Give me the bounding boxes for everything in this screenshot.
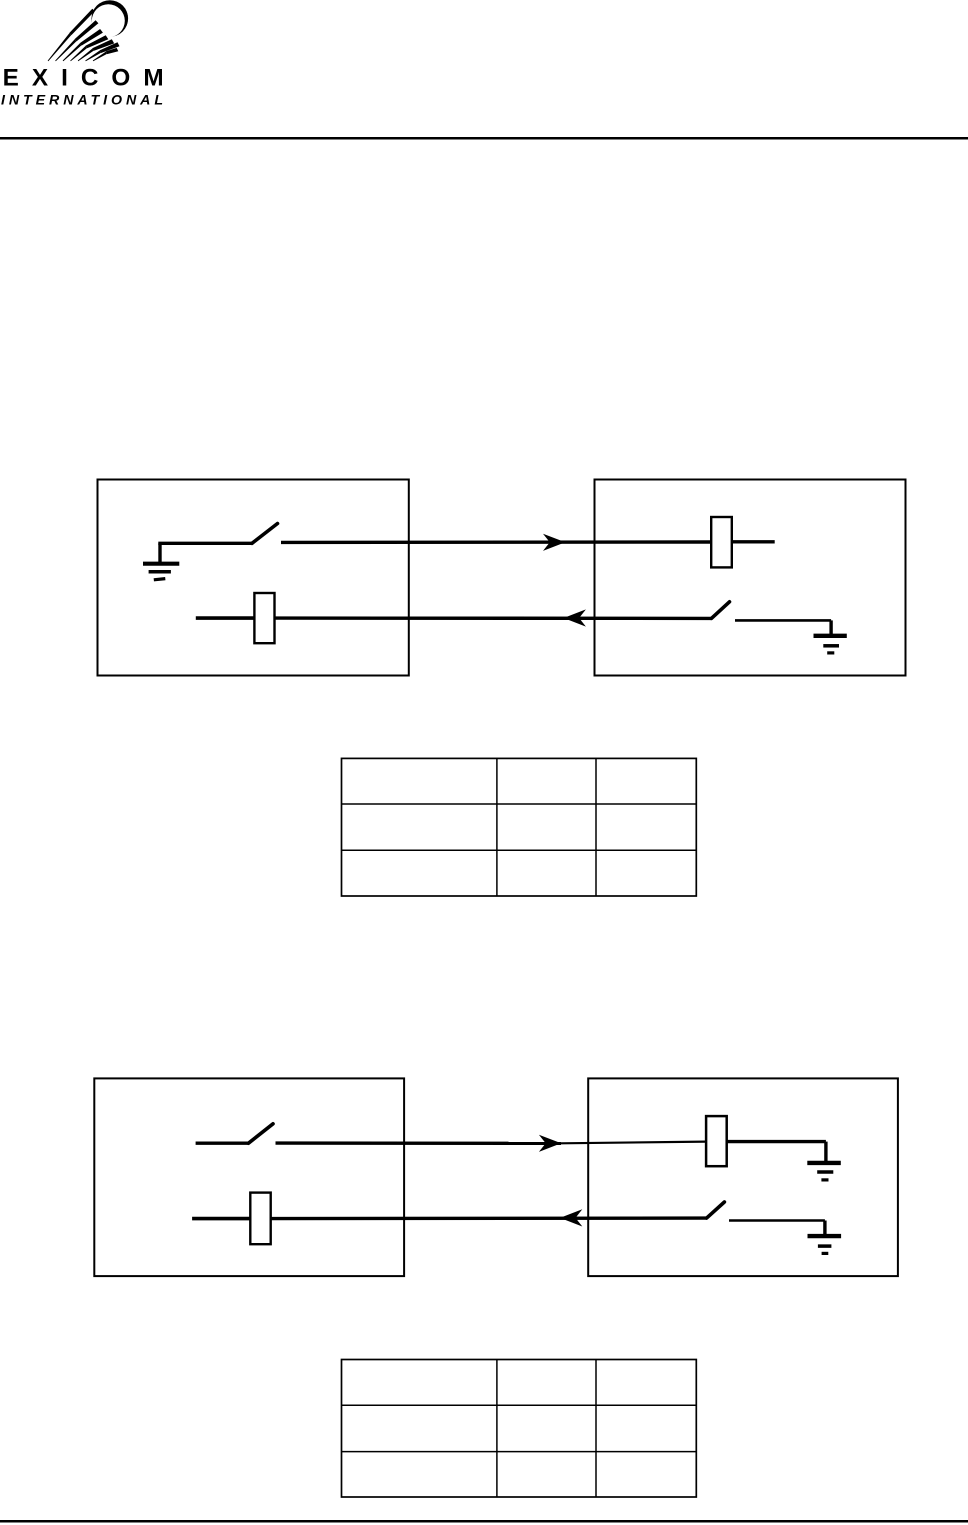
wire W1c xyxy=(732,540,775,543)
table 1 row line b xyxy=(342,849,697,851)
ground G2 xyxy=(814,620,847,653)
arrow A1 xyxy=(543,534,565,551)
wire W1b xyxy=(281,540,711,544)
table 1 frame xyxy=(342,758,697,896)
box remote DCE (diagram 2 right) xyxy=(588,1078,898,1276)
switch S4 xyxy=(707,1202,725,1218)
wire W1a xyxy=(158,542,252,545)
relay coil K1 xyxy=(711,517,732,567)
table 2 frame xyxy=(342,1360,697,1498)
wire W3a xyxy=(196,1141,249,1144)
arrow A2 xyxy=(564,609,586,626)
logo comet ball xyxy=(92,4,125,37)
wire W3d xyxy=(727,1140,826,1143)
box remote DCE (diagram 1 right) xyxy=(595,480,906,676)
relay coil K2 xyxy=(254,593,274,643)
relay coil K3 xyxy=(706,1116,727,1166)
switch S2 xyxy=(711,602,729,619)
logo comet ball crescent xyxy=(92,0,129,37)
header rule xyxy=(0,137,968,140)
ground G3 xyxy=(807,1142,841,1180)
logo comet speed lines xyxy=(48,9,120,62)
box local DTE (diagram 2 left) xyxy=(94,1078,404,1276)
ground G1 xyxy=(143,543,179,580)
table 1 row line a xyxy=(342,803,697,805)
relay coil K4 xyxy=(250,1193,270,1245)
footer rule xyxy=(0,1520,968,1523)
table 2 column line a xyxy=(496,1360,498,1498)
box local DTE (diagram 1 left) xyxy=(98,480,409,676)
table 2 column line b xyxy=(595,1360,597,1498)
table 1 column line b xyxy=(595,758,597,896)
ground G4 xyxy=(808,1221,842,1254)
table 2 row line a xyxy=(342,1404,697,1406)
wire W4c xyxy=(729,1219,825,1222)
switch S1 xyxy=(252,524,278,544)
table 1 column line a xyxy=(496,758,498,896)
table 2 row line b xyxy=(342,1451,697,1453)
wire W2b xyxy=(275,616,712,620)
arrow A3 xyxy=(539,1135,561,1152)
wire W2c xyxy=(735,619,831,622)
wire W4b xyxy=(271,1216,707,1220)
wire W4a xyxy=(192,1217,250,1221)
wire W3b xyxy=(276,1141,562,1145)
wire W3c xyxy=(561,1142,706,1144)
switch S3 xyxy=(249,1124,274,1143)
arrow A4 xyxy=(560,1209,582,1226)
wire W2a xyxy=(196,616,255,620)
